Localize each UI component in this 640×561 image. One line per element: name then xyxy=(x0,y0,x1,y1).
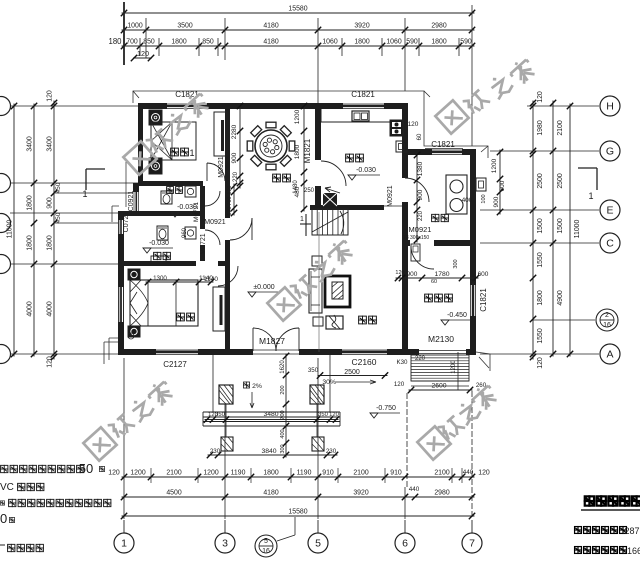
svg-text:-0.030: -0.030 xyxy=(356,167,376,174)
svg-text:910: 910 xyxy=(390,470,402,477)
dim storage top chain xyxy=(396,277,479,279)
window C2127 xyxy=(155,349,199,351)
svg-text:1620: 1620 xyxy=(280,360,286,374)
porch column right pier xyxy=(312,437,324,451)
svg-text:4180: 4180 xyxy=(263,490,278,497)
svg-text:M0921: M0921 xyxy=(204,219,226,226)
kitchen cabinet box xyxy=(396,141,407,152)
storage steps east xyxy=(411,355,469,381)
room label kitchen (chufang) xyxy=(346,154,354,162)
svg-text:120: 120 xyxy=(137,49,149,58)
svg-text:1000: 1000 xyxy=(127,23,142,30)
svg-text:2500: 2500 xyxy=(557,173,564,188)
svg-text:250: 250 xyxy=(304,188,315,194)
bottom chain groups xyxy=(122,496,475,498)
svg-text:1: 1 xyxy=(300,216,304,223)
svg-text:1500: 1500 xyxy=(557,218,564,233)
svg-text:220: 220 xyxy=(418,210,424,221)
living small square stand xyxy=(312,256,322,266)
elevation storage -0.450 xyxy=(441,320,449,325)
bath lower toilet xyxy=(157,226,168,240)
svg-text:1: 1 xyxy=(121,538,127,550)
svg-text:400: 400 xyxy=(280,429,286,438)
wall top north (middle) xyxy=(208,103,342,109)
top dimension chain 15580 xyxy=(122,12,475,14)
door M0921 kitchen south gap xyxy=(384,205,404,207)
dim annex right chain xyxy=(499,150,501,215)
svg-text:3400: 3400 xyxy=(27,136,34,151)
living incense burner xyxy=(326,316,343,329)
wall interior axis6 lower xyxy=(402,210,408,349)
door M1827 left leaf xyxy=(252,328,254,351)
svg-text:300: 300 xyxy=(280,444,286,453)
svg-text:7: 7 xyxy=(469,538,475,550)
annex stove counter xyxy=(446,175,467,214)
bath upper sink xyxy=(185,186,196,197)
svg-text:400: 400 xyxy=(462,197,473,204)
wall top north (bedroom2) xyxy=(138,103,166,109)
svg-text:440: 440 xyxy=(463,469,474,476)
left grid bubbles xyxy=(0,97,11,116)
window C0721 west xyxy=(119,220,124,234)
bedroom2 nightstand lower xyxy=(149,158,162,174)
svg-text:2600: 2600 xyxy=(431,383,446,390)
top dimension chain row2 xyxy=(122,29,475,31)
svg-text:1800: 1800 xyxy=(27,235,34,250)
svg-text:C: C xyxy=(606,238,614,250)
porch dim row2 xyxy=(208,454,338,456)
door M1821 arc xyxy=(321,161,346,186)
kitchen sink xyxy=(352,111,369,121)
left chain groups xyxy=(33,104,35,357)
svg-text:120: 120 xyxy=(537,91,544,103)
annex small box xyxy=(411,244,420,261)
section line through living room xyxy=(318,212,320,352)
door M0921 annex west arc xyxy=(405,178,429,202)
wall interior master east xyxy=(225,264,230,349)
svg-text:1200: 1200 xyxy=(203,470,218,477)
svg-text:11000: 11000 xyxy=(7,220,14,239)
svg-text:120: 120 xyxy=(537,357,544,369)
top extension lines xyxy=(123,2,125,65)
wall south east of door xyxy=(299,349,341,355)
staircase xyxy=(312,209,348,235)
window C1821 east storage xyxy=(470,284,472,317)
svg-text:C2127: C2127 xyxy=(163,360,187,369)
right chain individual xyxy=(532,101,534,360)
svg-text:M0921: M0921 xyxy=(387,185,394,207)
svg-text:4180: 4180 xyxy=(263,23,278,30)
svg-text:4500: 4500 xyxy=(166,490,181,497)
room label living (keting) xyxy=(359,316,367,324)
svg-text:590: 590 xyxy=(406,39,418,46)
room label stove (tuzao) xyxy=(432,214,439,221)
svg-text:1200: 1200 xyxy=(491,158,498,173)
svg-text:3400: 3400 xyxy=(47,136,54,151)
living stool xyxy=(313,317,323,326)
svg-text:4180: 4180 xyxy=(263,39,278,46)
elevation porch -0.750 xyxy=(370,413,378,418)
svg-text:VC: VC xyxy=(0,482,14,493)
wall south between window and door xyxy=(199,349,253,355)
watermark A bedroom2 xyxy=(123,141,156,174)
svg-text:850: 850 xyxy=(143,39,155,46)
svg-text:1500: 1500 xyxy=(537,218,544,233)
svg-text:4000: 4000 xyxy=(47,301,54,316)
right section mark 1 xyxy=(578,167,597,169)
svg-text:450: 450 xyxy=(55,212,62,223)
bedroom2 wardrobe xyxy=(214,112,227,156)
stair section mark xyxy=(305,214,307,236)
svg-text:: 166.5: : 166.5 xyxy=(622,546,640,556)
svg-text:220: 220 xyxy=(415,356,426,362)
right bubble 2/16 xyxy=(596,309,618,331)
chimney bump east xyxy=(476,178,486,191)
watermark D bottom right xyxy=(417,426,450,459)
wall east lower xyxy=(470,317,476,355)
svg-text:100: 100 xyxy=(481,194,487,203)
room label dining (canting) xyxy=(273,174,281,182)
door M1827 right leaf xyxy=(298,328,300,351)
svg-text:350: 350 xyxy=(308,367,319,374)
svg-text:700: 700 xyxy=(227,196,233,205)
svg-text:60: 60 xyxy=(431,279,437,285)
notes line3 xyxy=(0,501,4,505)
svg-text:700: 700 xyxy=(126,39,138,46)
right grid bubbles xyxy=(600,96,620,116)
svg-text:450: 450 xyxy=(55,182,62,193)
wall annex top xyxy=(402,149,431,155)
svg-text:M2130: M2130 xyxy=(428,334,454,344)
bath lower counter xyxy=(151,256,166,262)
wall west master xyxy=(118,211,124,355)
left chain individual xyxy=(53,101,55,360)
wall interior bath divider xyxy=(118,211,205,216)
svg-text:220: 220 xyxy=(233,171,239,182)
svg-text:2980: 2980 xyxy=(434,490,449,497)
svg-text:1480: 1480 xyxy=(293,180,299,194)
svg-text:230: 230 xyxy=(326,448,337,455)
dining table xyxy=(255,130,287,162)
svg-text:180: 180 xyxy=(108,37,122,46)
eave outline top xyxy=(133,91,488,158)
wall top north east end xyxy=(385,103,408,109)
svg-text:C1821: C1821 xyxy=(431,140,455,149)
bottom grid bubbles xyxy=(114,533,134,553)
wall interior dining east xyxy=(315,103,321,160)
svg-text:M1827: M1827 xyxy=(259,336,285,346)
room label bath lower (zhuwei) xyxy=(154,252,161,259)
svg-text:80: 80 xyxy=(470,279,476,285)
svg-text:1200: 1200 xyxy=(130,470,145,477)
dim dining left chain xyxy=(239,104,241,189)
svg-text:60: 60 xyxy=(417,133,423,140)
svg-text:6: 6 xyxy=(402,538,408,550)
svg-text:120: 120 xyxy=(408,121,419,128)
wall west bedroom2 xyxy=(138,103,143,186)
wall interior axis3 xyxy=(225,103,230,218)
svg-text:C0721: C0721 xyxy=(123,212,130,233)
door M0921 storage arc xyxy=(411,246,434,269)
svg-text:1140: 1140 xyxy=(204,276,218,283)
svg-text:120: 120 xyxy=(108,470,120,477)
svg-text:E: E xyxy=(606,205,613,217)
wall south east end xyxy=(388,349,410,355)
window C2160 xyxy=(341,349,388,351)
porch column left pier xyxy=(221,437,233,451)
watermark B top right xyxy=(435,100,468,133)
svg-text:1800: 1800 xyxy=(263,470,278,477)
top dimension chain row3 xyxy=(122,45,475,47)
elevation bath upper -0.030 xyxy=(171,212,179,217)
wall south main xyxy=(118,349,155,355)
svg-text:350: 350 xyxy=(318,412,328,418)
svg-text:0: 0 xyxy=(0,511,7,526)
wall step bath xyxy=(118,211,139,216)
svg-text:850: 850 xyxy=(202,39,214,46)
svg-text:1800: 1800 xyxy=(294,144,301,159)
svg-text:5: 5 xyxy=(264,538,268,545)
svg-text:30%: 30% xyxy=(322,379,336,386)
svg-text::287.8: :287.8 xyxy=(622,526,640,536)
master nightstand lower xyxy=(128,326,140,337)
bath upper toilet xyxy=(161,191,172,204)
wall interior axis6 xyxy=(402,103,408,178)
right chain groups xyxy=(552,101,554,357)
svg-text:2100: 2100 xyxy=(166,470,181,477)
svg-text:M0721: M0721 xyxy=(200,233,207,255)
svg-text:3920: 3920 xyxy=(354,23,369,30)
svg-text:C0921: C0921 xyxy=(128,191,135,212)
svg-text:2: 2 xyxy=(605,312,609,319)
door M1827 threshold xyxy=(253,349,299,351)
room label storage (zahuojian) xyxy=(425,294,433,302)
bedroom2 bed xyxy=(151,122,196,160)
svg-text:15580: 15580 xyxy=(288,509,307,516)
room label bedroom2 (ciwo1) xyxy=(171,148,179,156)
eave corner bottom right xyxy=(476,352,490,371)
svg-text:3920: 3920 xyxy=(353,490,368,497)
elevation kitchen -0.030 xyxy=(348,175,356,180)
svg-text:1800: 1800 xyxy=(171,39,186,46)
svg-text:120: 120 xyxy=(329,412,339,418)
svg-text:230: 230 xyxy=(210,448,221,455)
left extension line upper bath xyxy=(125,162,127,207)
wall interior kitchen south xyxy=(310,205,384,210)
slope down 2 percent xyxy=(243,382,249,388)
living altar table xyxy=(309,269,322,313)
svg-text:3840: 3840 xyxy=(261,448,276,455)
storage steps dim xyxy=(457,352,459,390)
svg-text:3480: 3480 xyxy=(263,411,278,418)
wall south storage room xyxy=(402,349,419,355)
svg-text:4000: 4000 xyxy=(27,301,34,316)
top sub dim 120 xyxy=(133,57,152,59)
window west master bedroom xyxy=(119,287,124,322)
wall interior bedroom2 south xyxy=(138,181,203,186)
svg-text:200: 200 xyxy=(280,385,286,394)
master drain xyxy=(128,333,134,339)
svg-text:1: 1 xyxy=(588,191,593,201)
kitchen stove xyxy=(390,120,403,136)
porch dim row1 xyxy=(205,419,339,421)
dim corridor chain xyxy=(233,184,235,216)
svg-text:120: 120 xyxy=(47,356,54,368)
window C0921 west xyxy=(133,192,139,211)
svg-text:4900: 4900 xyxy=(557,290,564,305)
svg-text:1380: 1380 xyxy=(417,161,424,176)
kitchen counter xyxy=(321,109,391,122)
porch edge lines xyxy=(212,355,214,412)
living shrine inner hatched panel xyxy=(332,282,343,299)
svg-text:2100: 2100 xyxy=(353,470,368,477)
svg-text:900: 900 xyxy=(407,271,418,278)
svg-text:1300: 1300 xyxy=(153,275,167,282)
svg-text:600: 600 xyxy=(478,271,489,278)
svg-text:2500: 2500 xyxy=(537,173,544,188)
svg-text:350: 350 xyxy=(215,412,225,418)
watermark C bottom left xyxy=(83,427,116,460)
svg-text:1800: 1800 xyxy=(537,290,544,305)
svg-text:11000: 11000 xyxy=(574,220,581,239)
svg-text:1: 1 xyxy=(82,189,87,199)
title first floor plan xyxy=(585,496,594,505)
svg-text:910: 910 xyxy=(322,470,334,477)
svg-text:±0.000: ±0.000 xyxy=(253,284,274,291)
elevation bath lower -0.030 xyxy=(143,248,151,253)
svg-text:300: 300 xyxy=(453,259,459,268)
bottom extension lines xyxy=(123,358,125,519)
svg-text:1800: 1800 xyxy=(354,39,369,46)
porch column right xyxy=(310,385,324,404)
door M0921 master arc xyxy=(218,266,238,286)
svg-text:120: 120 xyxy=(478,470,490,477)
room label bath upper (ciwei) xyxy=(167,187,174,194)
svg-text:2100: 2100 xyxy=(434,470,449,477)
svg-text:960: 960 xyxy=(182,227,188,238)
svg-text:H: H xyxy=(606,101,614,113)
svg-text:1550: 1550 xyxy=(537,328,544,343)
dim dining right chain xyxy=(303,104,305,212)
porch column left xyxy=(219,385,233,404)
svg-text:A: A xyxy=(606,349,613,361)
svg-text:120: 120 xyxy=(227,206,233,215)
svg-text:M0921: M0921 xyxy=(409,225,432,234)
right grid lines xyxy=(527,105,599,107)
svg-text:2500: 2500 xyxy=(344,369,360,376)
svg-text:15580: 15580 xyxy=(288,6,307,13)
svg-text:3: 3 xyxy=(222,538,228,550)
stair column xyxy=(323,193,337,206)
svg-text:1200: 1200 xyxy=(451,360,457,374)
svg-text:1800: 1800 xyxy=(47,235,54,250)
svg-text:900: 900 xyxy=(493,196,500,207)
svg-text:-0.030: -0.030 xyxy=(149,240,169,247)
left grid lines xyxy=(10,105,138,107)
left section mark 1 xyxy=(85,169,87,190)
svg-text:C1821: C1821 xyxy=(479,288,488,312)
bedroom2 nightstand upper xyxy=(149,110,162,125)
svg-text:C1821: C1821 xyxy=(351,90,375,99)
wall east xyxy=(470,149,476,284)
svg-text:K30: K30 xyxy=(396,359,408,366)
bath lower sink xyxy=(185,227,196,239)
master bed xyxy=(130,280,198,326)
dim master top xyxy=(146,281,214,283)
svg-text:3500: 3500 xyxy=(177,23,192,30)
door corridor arc xyxy=(230,218,252,240)
svg-text:120: 120 xyxy=(227,185,233,194)
svg-text:900: 900 xyxy=(417,189,424,200)
door M0721 bath upper arc xyxy=(205,191,220,206)
svg-text:-0.450: -0.450 xyxy=(447,312,467,319)
dim kitchen right chain xyxy=(416,153,418,243)
door M0721 bath lower arc xyxy=(205,230,220,245)
svg-text:120: 120 xyxy=(394,381,405,388)
wall interior storage north C-row xyxy=(402,240,410,246)
window C1821 bedroom2 xyxy=(166,103,208,105)
svg-text:900: 900 xyxy=(231,152,238,163)
watermark E center xyxy=(267,287,300,320)
steps outside bottom left corner xyxy=(104,338,118,364)
svg-text:600: 600 xyxy=(499,180,506,191)
right chain 11000 xyxy=(569,104,571,357)
notes bottom left line1 xyxy=(1,465,8,472)
eave corner left bath xyxy=(112,206,119,222)
svg-text:5: 5 xyxy=(315,538,321,550)
svg-text:G: G xyxy=(606,146,614,158)
svg-text:120: 120 xyxy=(47,90,54,102)
wall west bath upper xyxy=(133,183,139,216)
svg-text:120: 120 xyxy=(395,270,404,276)
svg-text:1980: 1980 xyxy=(537,120,544,135)
svg-text:1780: 1780 xyxy=(434,271,449,278)
porch steps xyxy=(203,411,340,413)
left chain 11000 xyxy=(13,104,15,357)
door M0921 bedroom2 arc xyxy=(207,163,225,181)
svg-text:1: 1 xyxy=(189,148,194,158)
svg-text:700: 700 xyxy=(280,410,286,419)
notes line5 xyxy=(0,544,5,546)
svg-text:900: 900 xyxy=(47,197,54,209)
svg-text:16: 16 xyxy=(603,322,611,329)
svg-text:16: 16 xyxy=(262,548,270,555)
svg-text:1550: 1550 xyxy=(537,252,544,267)
subtitle area line2 xyxy=(575,547,582,554)
svg-text:2100: 2100 xyxy=(557,120,564,135)
svg-text:M0921: M0921 xyxy=(218,156,225,178)
svg-text:-0.750: -0.750 xyxy=(376,405,396,412)
svg-text:1060: 1060 xyxy=(322,39,337,46)
svg-text:C2160: C2160 xyxy=(351,357,376,367)
svg-text:1800: 1800 xyxy=(431,39,446,46)
living shrine outer xyxy=(325,276,350,307)
window C1821 annex xyxy=(431,149,463,151)
svg-text:2%: 2% xyxy=(252,383,262,390)
svg-text:-0.030: -0.030 xyxy=(177,204,197,211)
bottom chain 15580 xyxy=(122,515,475,517)
wall interior hall south / master north xyxy=(118,261,196,266)
svg-text:50: 50 xyxy=(79,461,93,476)
stair arrow xyxy=(325,187,340,193)
svg-text:590: 590 xyxy=(460,39,472,46)
svg-text:1200: 1200 xyxy=(294,109,301,124)
dim C2160 2500 xyxy=(318,375,388,377)
subtitle area line1 xyxy=(575,527,582,534)
svg-text:1190: 1190 xyxy=(297,470,312,477)
master nightstand upper xyxy=(128,269,140,280)
window C1821 kitchen xyxy=(342,103,385,105)
